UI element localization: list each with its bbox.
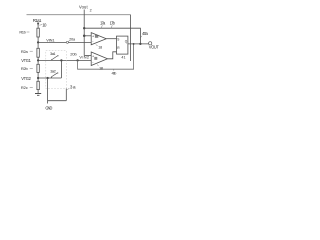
op-amp comparator 17a: [91, 33, 106, 45]
svg-text:+: +: [92, 34, 94, 38]
junction rail-vertical: [83, 27, 85, 29]
svg-text:3a: 3a: [70, 84, 76, 89]
node Vout label lead vertical: [83, 10, 85, 56]
resistor R1a1 body: [37, 28, 39, 37]
wire GND drop: [47, 78, 49, 104]
label R2c lead: [30, 87, 33, 89]
comparator 17b input ink blob: [94, 57, 97, 60]
svg-text:VOUT: VOUT: [149, 45, 159, 50]
svg-text:GND: GND: [45, 106, 52, 111]
ground ladder tick: [37, 94, 39, 96]
svg-text:R1b: R1b: [19, 30, 26, 35]
label 40b lead: [113, 69, 115, 70]
comparator 17a input ink blob: [95, 35, 98, 38]
svg-text:-: -: [92, 39, 94, 43]
svg-text:VIN2: VIN2: [79, 55, 89, 60]
wire VTG2 to switch 3a2: [38, 77, 61, 79]
label 18a lead: [96, 45, 98, 46]
junction feedback1 on output: [139, 43, 141, 45]
svg-text:17b: 17b: [110, 21, 116, 26]
svg-text:41: 41: [121, 55, 125, 59]
svg-text:VTG2: VTG2: [21, 76, 31, 81]
svg-text:18: 18: [98, 45, 102, 49]
latch 41 body: [117, 36, 128, 54]
wire VIN1 to comparator A minus input: [38, 41, 91, 43]
wire output to terminal: [128, 43, 149, 45]
switch box dashed outline: [46, 51, 67, 89]
node 20a circle: [66, 41, 68, 43]
wire comparator A plus input stub: [84, 35, 91, 37]
node feedback2 tap on VIN2: [76, 59, 78, 61]
node switch common junction: [60, 59, 62, 61]
svg-text:20b: 20b: [70, 51, 77, 56]
label 17a lead: [101, 25, 102, 28]
svg-text:R2c: R2c: [21, 85, 28, 90]
wire GND return horizontal: [48, 100, 67, 102]
label R2b lead: [30, 67, 33, 69]
wire feedback rail: [84, 28, 140, 44]
wire box right edge: [130, 15, 132, 61]
wire comparator 17a output: [106, 38, 116, 40]
svg-text:Q: Q: [125, 39, 128, 43]
label 18 lead: [97, 65, 99, 66]
svg-text:2: 2: [90, 9, 92, 13]
wire R2b to VTG2 node: [37, 72, 39, 81]
ground ladder bar: [35, 93, 41, 95]
svg-text:17a: 17a: [100, 21, 106, 26]
node GND tap junction: [46, 77, 48, 79]
wire GND return vertical: [65, 89, 67, 101]
svg-text:VIN1: VIN1: [46, 37, 54, 42]
wire ladder top: [37, 22, 39, 28]
svg-text:-: -: [92, 60, 94, 64]
label 10 lead: [40, 24, 43, 27]
op-amp comparator 17b: [91, 52, 107, 66]
svg-text:3a1: 3a1: [50, 51, 56, 56]
svg-text:20a: 20a: [69, 37, 76, 41]
wire R1 to VIN1 node: [37, 37, 39, 48]
svg-text:18: 18: [99, 65, 104, 70]
switch 3a2 blade: [51, 73, 58, 77]
wire comparator B plus input stub: [84, 55, 91, 57]
resistor R2b body: [37, 64, 39, 72]
junction comparator A plus input: [83, 35, 86, 38]
wire feedback2 path: [78, 44, 134, 69]
node VTG2 junction: [37, 77, 39, 79]
svg-text:3a2: 3a2: [50, 68, 56, 73]
svg-text:Vout: Vout: [79, 5, 88, 10]
label 17b lead: [111, 25, 112, 28]
node VIN1 junction: [37, 41, 39, 43]
wire R2a to VTG1 node: [37, 57, 39, 64]
svg-text:R1a1: R1a1: [33, 18, 42, 23]
svg-text:R: R: [117, 46, 120, 50]
arrow ladder input: [37, 23, 39, 26]
junction feedback2 on output: [133, 43, 135, 45]
svg-text:R2b: R2b: [21, 66, 29, 71]
svg-text:R2a: R2a: [21, 49, 29, 54]
svg-text:S: S: [117, 37, 119, 41]
terminal VOUT circle: [149, 42, 152, 45]
svg-text:40b: 40b: [112, 70, 118, 75]
label R1b lead: [27, 31, 30, 33]
svg-text:40a: 40a: [142, 31, 149, 36]
svg-text:VTG1: VTG1: [21, 58, 31, 63]
resistor R2c body: [37, 81, 39, 89]
wire comparator 17b output: [108, 52, 117, 59]
label 3a lead: [67, 88, 69, 89]
resistor R2a body: [37, 48, 39, 57]
svg-text:10: 10: [42, 23, 47, 28]
switch 3a1 blade: [52, 56, 59, 60]
label R2a lead: [30, 50, 33, 52]
label 40a lead: [141, 36, 142, 38]
wire top supply rail: [27, 14, 131, 16]
wire VTG1 to switch 3a1: [38, 59, 91, 61]
wire R2c to ground: [37, 90, 39, 94]
wire common vertical to switch 3a2: [60, 60, 62, 78]
svg-text:+: +: [92, 55, 94, 59]
node VTG1 junction: [37, 59, 39, 61]
